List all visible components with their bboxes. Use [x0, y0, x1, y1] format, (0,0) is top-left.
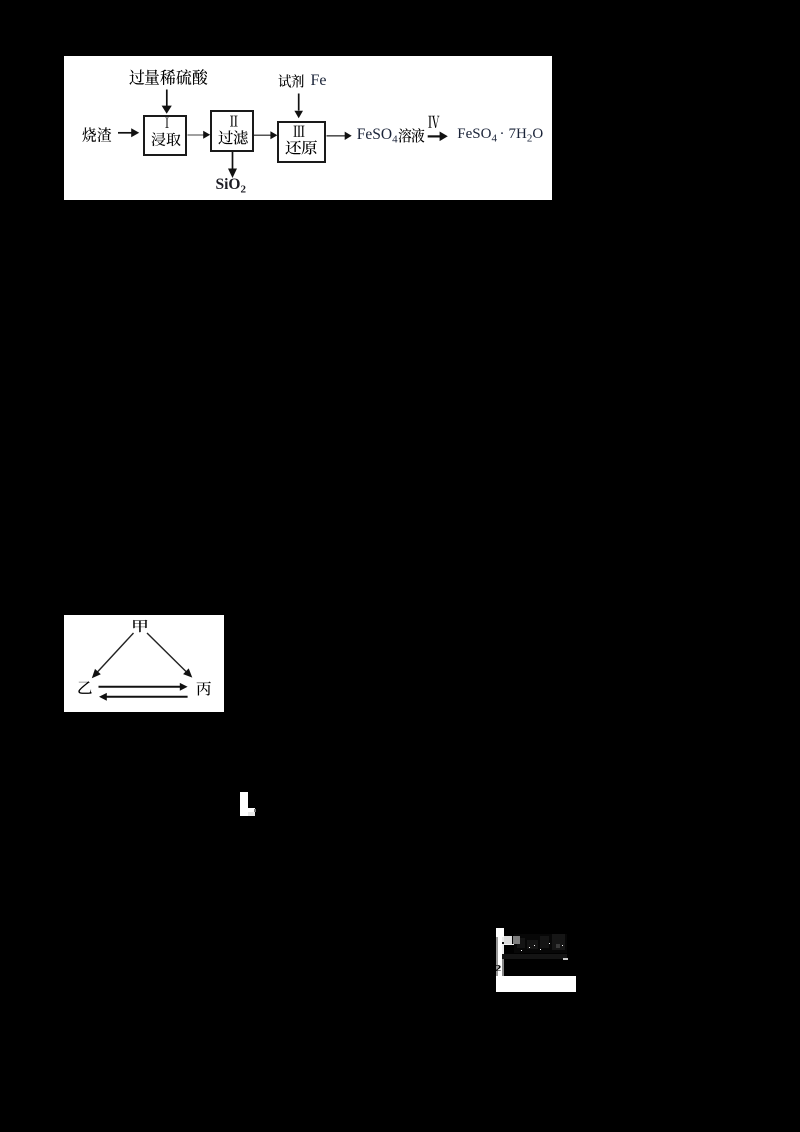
wire: 烧渣 to box I	[118, 128, 139, 137]
wire: box III to FeSO4 solution	[327, 132, 352, 140]
wire: 甲 to 乙 diagonal arrow	[92, 633, 134, 678]
artifact: white speckles	[534, 945, 535, 946]
box III 还原 (reduce)	[277, 121, 326, 163]
artifact: digit 2	[495, 965, 501, 972]
panel: triangle diagram background	[64, 615, 224, 712]
artifact: equation fragment white bar	[496, 928, 504, 937]
artifact: faint dark glyph blobs	[556, 944, 561, 948]
text 试剂	[278, 74, 305, 90]
artifact: white L-shaped mark	[240, 792, 248, 816]
artifact: fraction bar	[502, 954, 568, 959]
wire: vertical arrow 过量稀硫酸 to box I	[162, 90, 172, 119]
text FeSO4·7H2O	[457, 127, 543, 145]
artifact: faint equation glyph band	[514, 934, 567, 953]
wire: 乙 to 丙 horizontal arrow	[99, 683, 188, 691]
text FeSO4溶液	[357, 127, 425, 146]
text 烧渣 (roasted residue)	[82, 127, 111, 143]
wire: box I to box II	[188, 131, 211, 139]
box I 浸取 (leach)	[143, 115, 187, 156]
wire: vertical arrow box II down to SiO2	[228, 152, 237, 178]
text Fe	[311, 73, 327, 89]
box II 过滤 (filter)	[210, 110, 254, 153]
artifact: bottom white rectangle	[496, 976, 576, 992]
panel: flow diagram background	[64, 56, 552, 200]
wire: box II to box III	[254, 131, 277, 139]
text 甲	[131, 619, 149, 635]
text 过量稀硫酸 (excess dilute sulfuric acid)	[129, 69, 208, 86]
text 乙	[77, 680, 93, 696]
label IV	[428, 114, 440, 130]
wire: 丙 to 乙 horizontal arrow	[99, 693, 188, 701]
wire: vertical arrow 试剂Fe to box III	[294, 94, 303, 119]
artifact: gray blocks of equation	[502, 942, 505, 944]
text SiO2	[216, 177, 246, 196]
text 丙	[196, 681, 212, 697]
wire: step IV arrow	[428, 132, 448, 142]
wire: 甲 to 丙 diagonal arrow	[147, 633, 192, 678]
